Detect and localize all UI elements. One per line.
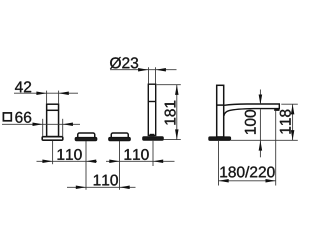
hand shower rod bbox=[148, 84, 155, 135]
left handle base plate bbox=[42, 137, 63, 141]
dimension 110 bottom arrows bbox=[76, 186, 130, 190]
label 110 bottom bbox=[94, 175, 118, 186]
spout aerator bbox=[274, 109, 279, 111]
dimension 110 first arrows bbox=[42, 160, 96, 164]
square symbol for 66 bbox=[3, 113, 11, 121]
dimension O23 arrows bbox=[138, 68, 166, 72]
spout base plate bbox=[209, 137, 231, 140]
dimension 110 second arrows bbox=[109, 160, 163, 164]
dimension 42 lines bbox=[14, 91, 78, 104]
label O23 bbox=[110, 57, 138, 69]
dimension 100 arrows bbox=[259, 95, 263, 151]
label 118 bbox=[280, 110, 291, 134]
hand shower base plate bbox=[143, 137, 163, 140]
label 100 bbox=[245, 110, 256, 134]
dimension 66 arrows bbox=[33, 123, 73, 127]
label 42 bbox=[15, 81, 31, 92]
dimension O23 lines bbox=[110, 67, 177, 84]
dimension 180/220 lines bbox=[219, 111, 276, 186]
dimension 181 lines bbox=[157, 85, 181, 140]
dimension 66 lines bbox=[2, 119, 80, 136]
label 110 second bbox=[125, 149, 149, 160]
dimension 180/220 arrows bbox=[219, 179, 276, 183]
knob 1 top bbox=[78, 133, 95, 137]
spout riser tube bbox=[217, 85, 224, 137]
dimension 110 bottom line bbox=[67, 186, 136, 188]
hand shower rod bottom connector bbox=[150, 134, 155, 137]
label 66 bbox=[15, 112, 31, 123]
dimension 110 second lines bbox=[106, 141, 175, 190]
knob 1 base bbox=[75, 138, 96, 141]
spout arm bbox=[224, 104, 279, 116]
knob 2 top bbox=[111, 133, 128, 137]
left handle column bbox=[47, 104, 59, 136]
knob 2 base bbox=[109, 138, 130, 141]
dimension 118 lines bbox=[281, 104, 298, 140]
dimension 110 first lines bbox=[37, 141, 98, 190]
label 181 bbox=[165, 101, 176, 125]
dimension 42 arrows bbox=[36, 91, 68, 95]
label 180/220 bbox=[220, 166, 274, 177]
deck line right bbox=[231, 139, 298, 141]
dimension 181 arrows bbox=[175, 85, 179, 140]
dimension 118 arrows bbox=[291, 104, 295, 140]
dimension 100 lines bbox=[259, 90, 261, 158]
label 110 first bbox=[58, 149, 82, 160]
